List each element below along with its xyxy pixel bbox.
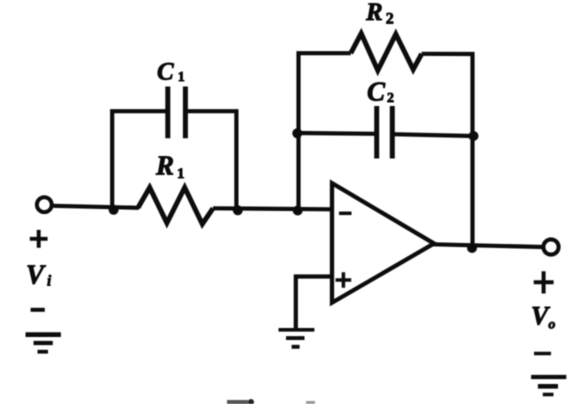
svg-text:Vo: Vo [531,301,555,332]
svg-text:C1: C1 [157,58,185,85]
svg-text:Vi: Vi [26,259,52,289]
svg-text:C2: C2 [367,76,394,106]
svg-text:R2: R2 [365,0,394,27]
svg-text:R1: R1 [155,151,185,182]
